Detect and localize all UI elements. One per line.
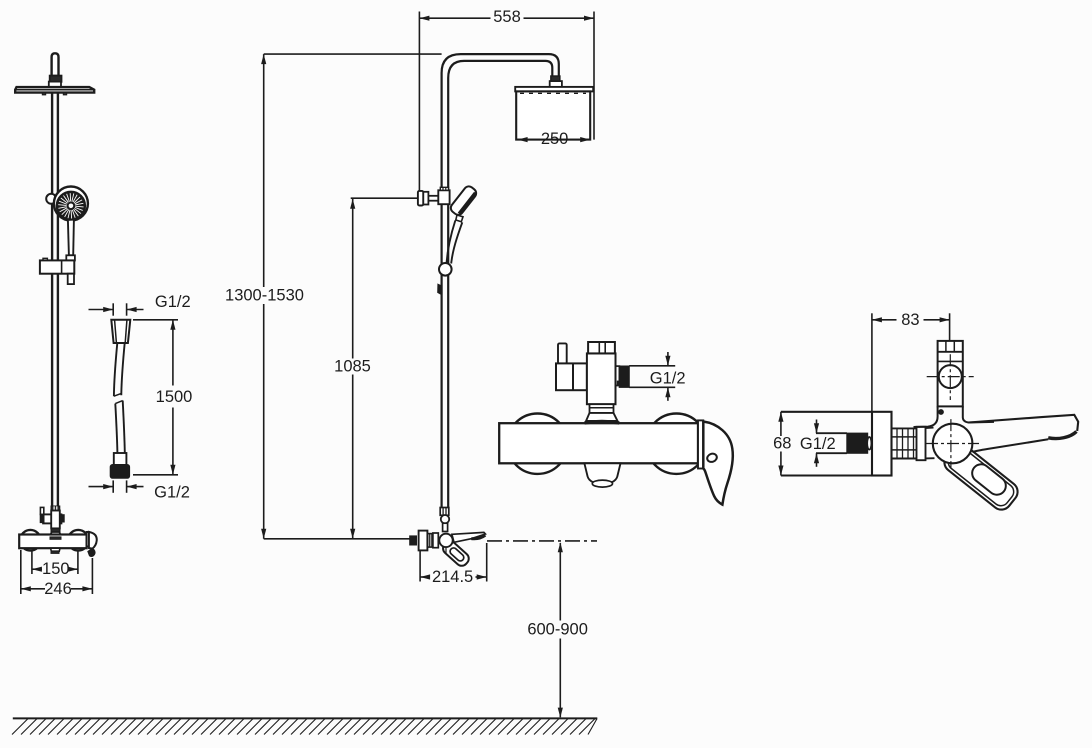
dimension 246 <box>20 550 22 594</box>
dimension 150 <box>31 551 33 574</box>
wall bracket flange <box>418 191 423 206</box>
svg-text:246: 246 <box>44 580 72 598</box>
mixer side: wall flange <box>419 531 428 551</box>
svg-text:G1/2: G1/2 <box>650 369 686 387</box>
svg-text:1085: 1085 <box>334 357 371 375</box>
mixer front: left arm <box>556 363 587 390</box>
side view: body shoulders <box>914 406 938 427</box>
wall plane extension line <box>418 12 420 191</box>
hand shower handle curve <box>447 221 456 263</box>
left view: hand shower wall knuckle <box>46 194 56 204</box>
mixer side: thread black square <box>410 536 417 545</box>
left view: hand shower spray face <box>57 192 85 220</box>
right extension line <box>593 12 595 140</box>
ground hatching <box>12 719 597 735</box>
diverter axis extension line <box>949 313 951 341</box>
left view: top stub <box>52 53 59 76</box>
left view: diverter base flare <box>50 532 62 537</box>
dimension 214.5 <box>419 550 421 581</box>
left view: handle collar <box>66 255 75 260</box>
left view: lever <box>89 532 97 549</box>
hand shower pivot tab <box>456 215 463 222</box>
left view: diverter cross body <box>43 514 61 523</box>
svg-text:G1/2: G1/2 <box>800 435 836 453</box>
side view: button dot <box>939 410 944 415</box>
side view: spout bottom edge <box>973 439 1049 452</box>
left view: hose connector tip <box>68 274 74 284</box>
mixer front: right arm stub <box>616 366 620 385</box>
svg-text:83: 83 <box>901 311 919 329</box>
dimension 600-900 <box>559 543 561 621</box>
hose upper segment <box>114 343 117 396</box>
left view: mixer body <box>19 535 86 549</box>
top extension line to pipe <box>264 53 442 55</box>
left view: right flange circle <box>68 530 89 551</box>
svg-text:250: 250 <box>541 130 569 148</box>
svg-text:G1/2: G1/2 <box>154 484 190 502</box>
svg-text:1300-1530: 1300-1530 <box>225 286 304 304</box>
mixer front: spout <box>584 463 620 482</box>
hose bottom collar <box>114 453 127 465</box>
wall bracket stem <box>428 195 438 197</box>
svg-text:68: 68 <box>773 435 791 453</box>
hose bottom nut <box>111 465 130 478</box>
dimension 1500 <box>133 319 178 321</box>
mixer front: diverter neck <box>590 404 614 413</box>
hose top G1/2 label <box>112 303 114 315</box>
mixer side: nipple <box>427 534 433 548</box>
dimension 68 <box>780 412 782 436</box>
left view: stub nut <box>50 76 62 82</box>
side view: thread dia arrows <box>816 420 818 434</box>
mixer front: body <box>499 423 698 463</box>
diverter centerlines <box>927 376 974 378</box>
left view: handle end cap <box>87 532 89 547</box>
mixer side: handle <box>441 539 472 569</box>
side view: thread black block <box>847 433 868 453</box>
wall bracket collar <box>423 192 428 205</box>
hand shower head side view <box>449 184 478 216</box>
dimension 83 <box>872 319 897 321</box>
connector stem <box>443 523 448 531</box>
left view: diverter right tab <box>60 515 64 522</box>
hose bottom G1/2 label <box>112 480 114 492</box>
side view: nipple <box>892 427 925 429</box>
svg-text:558: 558 <box>493 8 521 26</box>
svg-text:214.5: 214.5 <box>432 568 473 586</box>
side view: handle <box>940 440 1021 513</box>
side view: G1/2 thread stem <box>816 432 847 434</box>
left view: slider clamp <box>43 258 47 261</box>
svg-text:150: 150 <box>42 560 70 578</box>
G1/2 thread dimension <box>629 365 675 367</box>
clamp nut marks <box>440 187 448 190</box>
side view: spout opening curl <box>1048 432 1076 439</box>
overhead shower plate side view <box>515 87 593 92</box>
wall plane extension line <box>871 313 873 412</box>
slider knob <box>439 263 452 276</box>
side view: body to circle <box>926 427 934 429</box>
left view: spout outlet <box>51 548 60 551</box>
head connector collar <box>550 81 562 87</box>
left view: left flange circle <box>20 530 41 551</box>
side view: valve circle <box>933 424 973 464</box>
side view: thread tip <box>867 437 871 450</box>
left view: diverter nut <box>51 506 59 510</box>
mixer front: lever <box>703 422 733 505</box>
wall inlet extension line <box>351 197 419 199</box>
svg-text:G1/2: G1/2 <box>155 293 191 311</box>
left view: base dark band under flare <box>50 537 61 539</box>
side view: wall flange <box>872 412 892 476</box>
dimension 558 <box>419 17 490 19</box>
left view: diverter lever <box>40 507 43 514</box>
ground line <box>13 717 598 719</box>
valve centerlines <box>926 443 979 445</box>
dimension 1300-1530 <box>263 54 265 287</box>
dimension 1085 <box>352 199 354 359</box>
dimension 250 <box>516 139 540 141</box>
left view: diverter neck band <box>51 528 60 532</box>
side view: wall box <box>781 411 872 413</box>
side view: diverter knob circle <box>939 365 962 388</box>
left view: overhead shower disc <box>15 87 94 93</box>
mixer front: small pipe top-left <box>558 343 567 363</box>
mixer side: spout <box>452 532 486 542</box>
svg-text:600-900: 600-900 <box>527 621 588 639</box>
left view: hand shower outer rim <box>54 187 88 221</box>
mixer front: diverter body <box>587 353 616 404</box>
side view: spout top edge <box>969 415 1079 431</box>
riser pipe side view outer <box>442 54 559 508</box>
centerline dash-dot <box>487 540 597 542</box>
mixer front: diverter top cap <box>588 342 615 353</box>
left view: hand shower handle <box>68 220 74 256</box>
overhead shower body side view <box>516 91 590 139</box>
pipe clamp block <box>438 190 449 204</box>
hose lower segment <box>115 404 117 453</box>
left view: disc nozzles <box>42 93 45 95</box>
head connector nut <box>551 76 560 81</box>
hand shower tip below slider <box>438 285 442 294</box>
riser pipe side view inner <box>448 61 552 509</box>
mixer front: thread block <box>619 366 629 387</box>
mixer side: valve circle <box>439 534 452 547</box>
side view: collar <box>917 427 926 460</box>
mixer front: left flange circle <box>507 414 567 474</box>
hose top fitting <box>111 320 130 343</box>
mixer front: diverter base flare <box>586 413 617 421</box>
bottom connector nut <box>440 508 449 516</box>
side view: diverter rect <box>938 341 963 407</box>
left view: riser pipe <box>51 87 53 535</box>
svg-text:1500: 1500 <box>156 388 193 406</box>
connector ball <box>441 515 449 523</box>
mixer centerline extension <box>264 538 410 540</box>
left view: head escutcheon <box>49 82 61 88</box>
mixer front: handle end cap <box>698 420 703 468</box>
mixer side: collar <box>433 533 438 548</box>
mixer front: right flange circle <box>646 414 706 474</box>
